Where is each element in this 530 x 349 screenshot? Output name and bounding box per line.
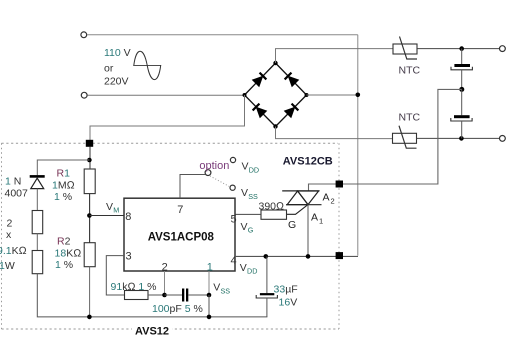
NTC1 thermistor bbox=[393, 37, 417, 60]
wire R2 to bus bbox=[89, 267, 91, 317]
svg-text:7: 7 bbox=[177, 204, 183, 216]
label source 110V or 220V bbox=[104, 47, 131, 88]
wire pin4 VDD net bbox=[235, 255, 358, 257]
junction dot R2 bus bbox=[87, 315, 92, 320]
junction dot pin2 node bbox=[162, 293, 167, 298]
resistor R5 91k bbox=[125, 291, 149, 300]
svg-text:V: V bbox=[241, 221, 248, 233]
wire pin2 lead bbox=[164, 271, 166, 295]
svg-text:A: A bbox=[323, 192, 330, 204]
dashed box AVS12 bottom border bbox=[2, 328, 340, 330]
label 33uF 16V bbox=[274, 283, 298, 308]
label 91k 1% bbox=[111, 281, 157, 293]
node square mains entry into AVS12 bbox=[86, 140, 93, 147]
label VM bbox=[106, 201, 119, 215]
svg-text:AVS12: AVS12 bbox=[135, 325, 169, 337]
svg-text:100pF 5 %: 100pF 5 % bbox=[152, 303, 203, 315]
terminal T4 bbox=[500, 136, 506, 142]
svg-text:V: V bbox=[240, 262, 247, 274]
svg-text:A: A bbox=[311, 212, 318, 224]
svg-text:V: V bbox=[106, 201, 113, 213]
wire C3 to VSS node bbox=[188, 294, 209, 296]
capacitor C2 (bottom right) bbox=[451, 89, 472, 138]
label A1 bbox=[311, 212, 323, 226]
svg-text:33µF: 33µF bbox=[274, 283, 298, 295]
svg-text:9.1KΩ: 9.1KΩ bbox=[0, 245, 27, 257]
svg-text:option: option bbox=[199, 160, 229, 172]
svg-text:18KΩ: 18KΩ bbox=[55, 247, 82, 259]
junction dot at (358,95) bbox=[356, 93, 361, 98]
svg-text:G: G bbox=[248, 226, 254, 235]
svg-text:G: G bbox=[288, 219, 296, 231]
junction dot VM node bbox=[87, 213, 92, 218]
wire R1 to R2 bbox=[89, 194, 91, 243]
capacitor C1 (top right) bbox=[451, 49, 472, 90]
junction dot A1 joins VDD net bbox=[306, 254, 311, 259]
pin number 2 bbox=[162, 261, 168, 273]
label 1N4007 bbox=[5, 175, 29, 199]
wire T2 to bridge left vertex bbox=[87, 94, 244, 96]
svg-text:1 %: 1 % bbox=[54, 191, 72, 203]
svg-text:NTC: NTC bbox=[399, 112, 421, 124]
label AVS12 bbox=[132, 322, 172, 337]
junction dot C1 top bbox=[459, 46, 464, 51]
junction dot between C1 and C2 bbox=[459, 87, 464, 92]
svg-text:AVS12CB: AVS12CB bbox=[283, 155, 333, 167]
svg-text:M: M bbox=[113, 206, 119, 215]
svg-text:3: 3 bbox=[126, 251, 132, 263]
svg-text:R1: R1 bbox=[57, 168, 71, 180]
wire VSS node to bus bbox=[208, 295, 210, 317]
svg-text:2: 2 bbox=[331, 197, 335, 206]
svg-text:R2: R2 bbox=[57, 236, 71, 248]
label VDD option bbox=[242, 160, 260, 174]
node circle option VDD bbox=[230, 157, 235, 162]
wire bridge bottom to NTC2 line bbox=[276, 127, 393, 139]
svg-text:390Ω: 390Ω bbox=[259, 201, 285, 213]
dashed box AVS12 right border bbox=[338, 143, 340, 329]
junction dot VSS node bbox=[207, 293, 212, 298]
svg-text:2: 2 bbox=[7, 218, 13, 230]
terminal T3 bbox=[500, 46, 506, 52]
junction dot above R1 bbox=[87, 158, 92, 163]
label AVS1ACP08 bbox=[148, 231, 215, 243]
junction dot C2 bottom bbox=[459, 136, 464, 141]
svg-text:x: x bbox=[6, 229, 12, 241]
svg-text:4007: 4007 bbox=[5, 188, 29, 200]
label AVS12CB bbox=[283, 155, 333, 167]
pin number 5 bbox=[231, 213, 237, 225]
label VSS option bbox=[241, 187, 258, 201]
svg-text:AVS1ACP08: AVS1ACP08 bbox=[148, 231, 215, 243]
svg-text:DD: DD bbox=[247, 267, 257, 276]
wire pin2 node to C3 bbox=[165, 294, 183, 296]
diode D1 1N4007 bbox=[30, 176, 45, 210]
resistor R4 9.1k lower bbox=[32, 251, 43, 274]
wire pin5 to 390 bbox=[235, 213, 261, 215]
wire bridge right vertex to x358 bbox=[307, 94, 358, 96]
svg-text:SS: SS bbox=[221, 286, 231, 295]
wire bridge left vertex down-left to module entry bbox=[90, 95, 245, 159]
svg-text:1 N: 1 N bbox=[5, 175, 21, 187]
diode bridge bbox=[245, 63, 307, 127]
dashed box AVS12 left border bbox=[1, 143, 3, 329]
bridge diode D-bottomleft (points to left AC vertex) bbox=[253, 104, 267, 118]
resistor 390 ohm bbox=[261, 210, 287, 219]
wire bridge top to NTC1 line bbox=[276, 49, 394, 63]
label VDD pin4 bbox=[240, 262, 258, 276]
label 390 ohm bbox=[259, 201, 285, 213]
svg-text:1: 1 bbox=[207, 261, 213, 273]
junction dot VSS bus bbox=[207, 315, 212, 320]
node square VDD exits module bbox=[336, 252, 343, 259]
label R2 bbox=[55, 236, 82, 272]
wire NTC1 to terminal T3 bbox=[417, 48, 499, 50]
pin number 3 bbox=[126, 251, 132, 263]
triac AVS12CB bbox=[282, 191, 321, 205]
bridge diode D-topright (points to + top vertex) bbox=[285, 73, 299, 87]
junction bridge bottom vertex bbox=[273, 124, 277, 128]
svg-text:DD: DD bbox=[249, 165, 259, 174]
svg-text:SS: SS bbox=[248, 192, 258, 201]
svg-text:220V: 220V bbox=[104, 76, 129, 88]
pin number 4 bbox=[231, 255, 237, 267]
svg-text:1W: 1W bbox=[0, 260, 15, 272]
triac gate lead G bbox=[287, 205, 309, 215]
pin number 1 bbox=[207, 261, 213, 273]
node circle pin7 option bbox=[205, 170, 211, 176]
wire VM node to pin8 bbox=[89, 215, 124, 217]
junction bridge right vertex bbox=[305, 93, 309, 97]
resistor R3 9.1k upper bbox=[32, 211, 43, 234]
wire right vertical x358 bbox=[357, 35, 359, 256]
wire pin7 to option circle bbox=[180, 175, 205, 199]
resistor R2 bbox=[84, 243, 95, 267]
svg-text:1MΩ: 1MΩ bbox=[52, 179, 75, 191]
pin number 7 bbox=[177, 204, 183, 216]
capacitor C3 100pF bbox=[182, 289, 188, 302]
label VSS pin1 bbox=[213, 282, 230, 296]
svg-text:NTC: NTC bbox=[399, 65, 421, 77]
IC U1 AVS1ACP08 bbox=[124, 198, 235, 271]
label option bbox=[199, 160, 229, 172]
svg-text:V: V bbox=[213, 282, 220, 294]
wire pin3 to 91k resistor bbox=[106, 256, 124, 295]
dashed box AVS12 top border bbox=[2, 142, 339, 144]
svg-text:5: 5 bbox=[231, 213, 237, 225]
terminal T1 (line input top) bbox=[81, 32, 87, 38]
svg-text:V: V bbox=[242, 160, 249, 172]
wire pin1 lead bbox=[208, 271, 210, 295]
svg-text:V: V bbox=[241, 187, 248, 199]
node square A2 exits module bbox=[336, 181, 343, 188]
svg-text:or: or bbox=[104, 63, 114, 75]
junction dot C4 top bbox=[264, 254, 269, 259]
svg-text:8: 8 bbox=[125, 211, 131, 223]
svg-text:1 %: 1 % bbox=[55, 259, 73, 271]
wire between 9.1k resistors bbox=[36, 234, 38, 251]
label G bbox=[288, 219, 296, 231]
capacitor C4 33uF bbox=[256, 256, 277, 317]
wire 91k to pin2 node bbox=[148, 294, 165, 296]
wire A2 net: triac to caps midpoint bbox=[309, 89, 462, 190]
NTC2 thermistor bbox=[393, 126, 417, 149]
resistor R1 bbox=[84, 169, 95, 194]
wire entry square to R1 bbox=[89, 147, 91, 169]
junction bridge left vertex bbox=[243, 93, 247, 97]
label R1 bbox=[52, 168, 75, 204]
pin number 8 bbox=[125, 211, 131, 223]
triac A1 lead bbox=[307, 205, 309, 257]
svg-text:16V: 16V bbox=[279, 296, 298, 308]
label A2 bbox=[323, 192, 335, 206]
label 2 x 9.1K 1W bbox=[0, 218, 27, 273]
wire NTC2 to terminal T4 bbox=[417, 137, 500, 139]
wire branch to diode column bbox=[37, 160, 89, 175]
junction bridge top vertex bbox=[273, 61, 277, 65]
bridge diode D-topleft (points to + top vertex) bbox=[252, 73, 266, 87]
svg-text:91kΩ 1 %: 91kΩ 1 % bbox=[111, 281, 157, 293]
source sine symbol bbox=[133, 51, 161, 79]
svg-text:110 V: 110 V bbox=[104, 47, 131, 59]
label 100pF 5% bbox=[152, 303, 203, 315]
label NTC2 bbox=[399, 112, 421, 124]
terminal T2 (line input bottom) bbox=[81, 92, 87, 98]
svg-text:1: 1 bbox=[319, 217, 323, 226]
wire 9.1k lower to bus bbox=[37, 274, 267, 317]
dotted wire pin7 to VSS option bbox=[210, 176, 229, 186]
label VG pin5 bbox=[241, 221, 254, 235]
wire T1 to right vertical bbox=[87, 34, 358, 36]
label NTC1 bbox=[399, 65, 421, 77]
node circle option VSS bbox=[230, 185, 235, 190]
bridge diode D-bottomright (points to right AC vertex) bbox=[284, 104, 298, 118]
